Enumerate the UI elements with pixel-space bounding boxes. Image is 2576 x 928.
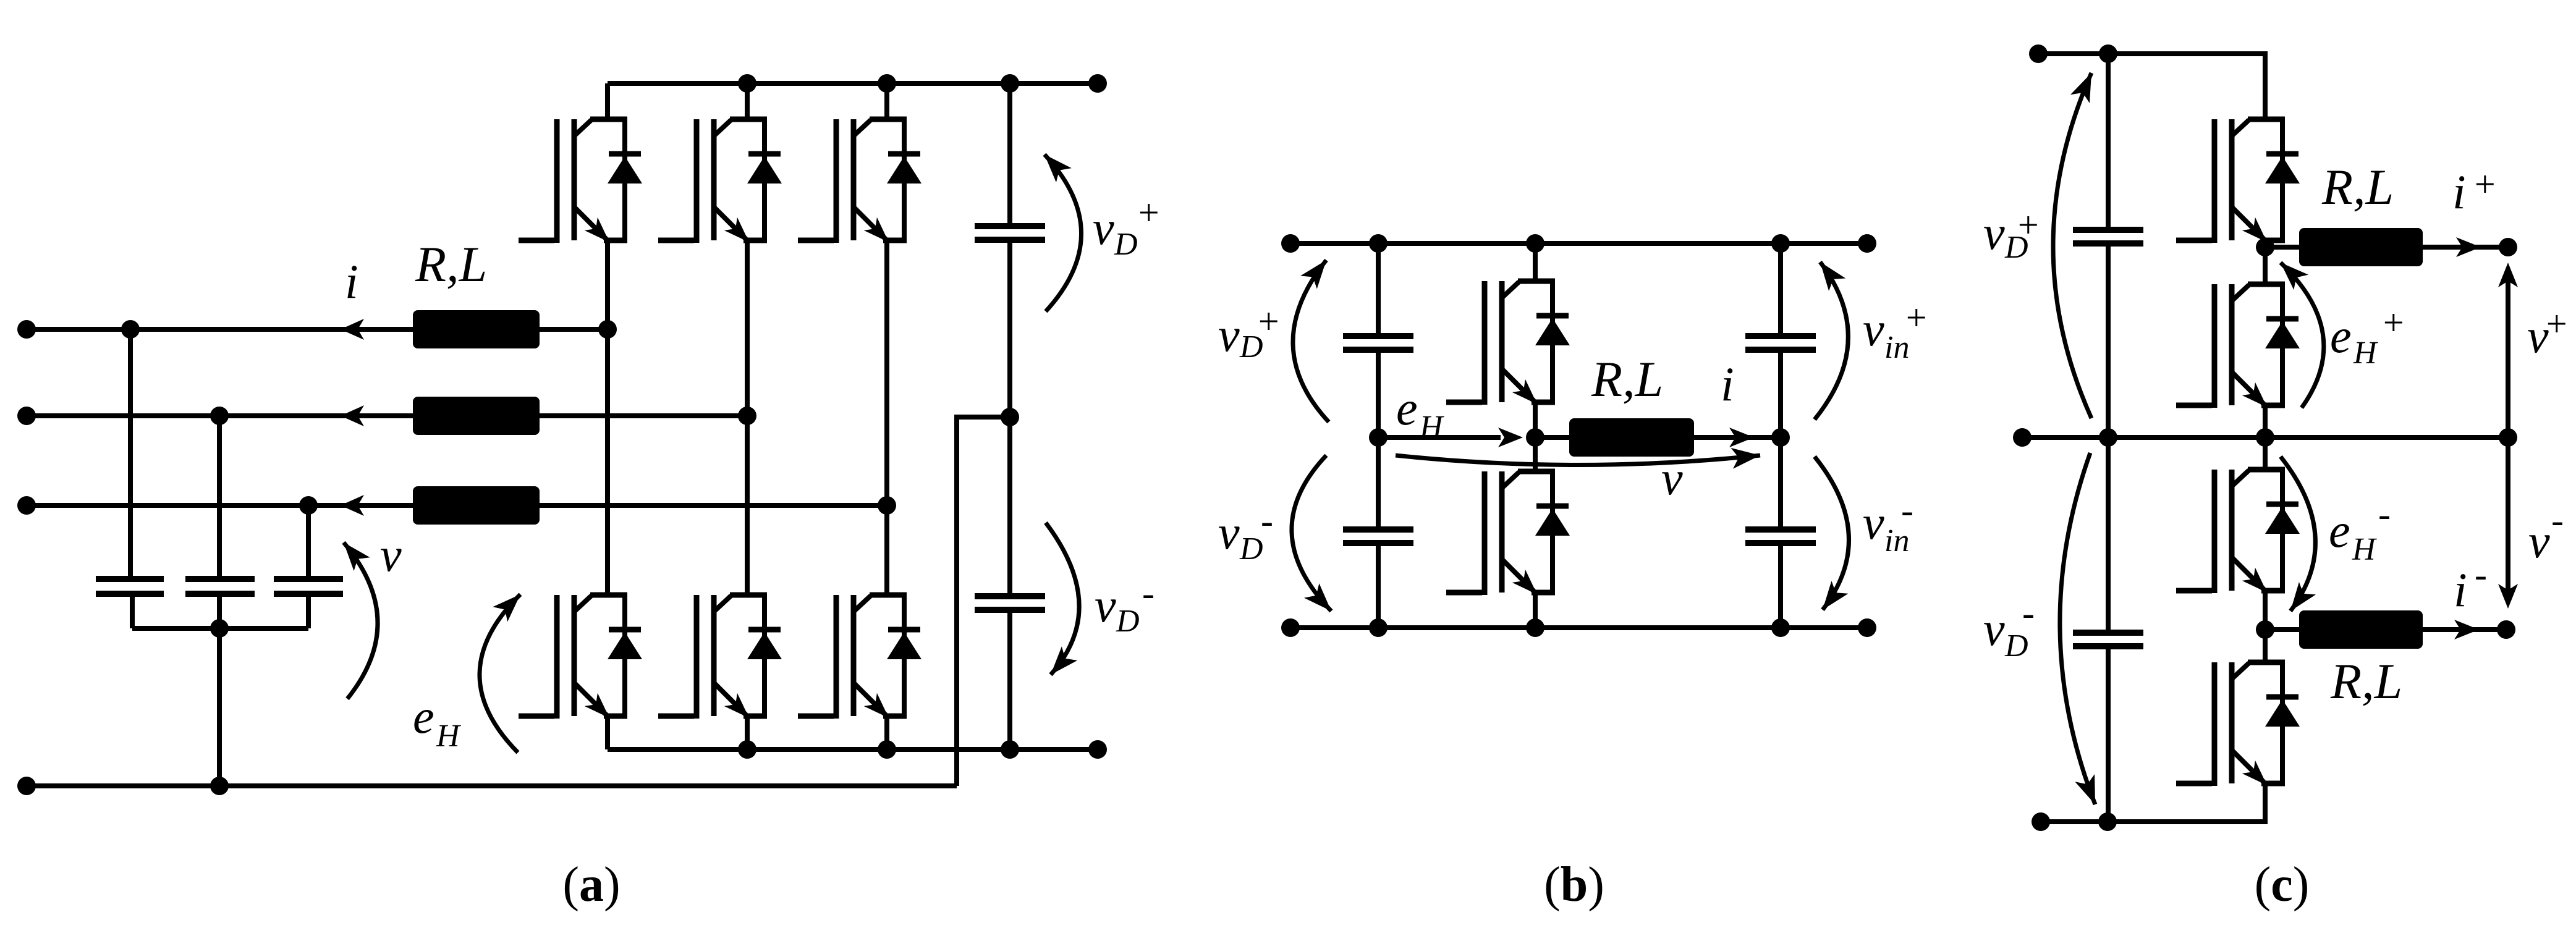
IGBT Q6 lower (a) bbox=[798, 595, 922, 719]
inductor R,L- (c) bbox=[2299, 610, 2423, 649]
svg-text:v: v bbox=[1983, 206, 2005, 259]
label v- (c) bbox=[2528, 500, 2564, 568]
junction dot top rail (b) bbox=[1281, 234, 1300, 253]
capacitor filter Cc bbox=[274, 579, 343, 594]
svg-text:i: i bbox=[345, 255, 358, 308]
capacitor C_D+ (b) bbox=[1343, 336, 1413, 350]
arrow v_D- (a) bbox=[1046, 523, 1079, 675]
junction dot top rail (b) bbox=[1526, 234, 1544, 253]
terminal dot phase-b bbox=[17, 407, 36, 425]
svg-text:-: - bbox=[1261, 500, 1273, 541]
label i- (c) bbox=[2454, 554, 2487, 617]
IGBT Q2 upper (a) bbox=[658, 119, 782, 243]
arrow e_H (b) bbox=[1378, 428, 1523, 447]
svg-text:e: e bbox=[2330, 309, 2352, 363]
wire left cap leg upper (b) bbox=[1376, 243, 1381, 336]
svg-text:(a): (a) bbox=[562, 858, 620, 912]
IGBT Q2+ (c) bbox=[2176, 284, 2300, 408]
junction dot bottom rail (b) bbox=[1526, 618, 1544, 637]
terminal dot bottom-left (c) bbox=[2032, 812, 2050, 831]
wire leg2 emitter bbox=[745, 716, 750, 749]
IGBT Q2 (b) bbox=[1446, 471, 1570, 595]
junction dot right cap mid (b) bbox=[1771, 428, 1790, 447]
arrow v_D+ (c) bbox=[2053, 73, 2091, 418]
wire leg1 emitter bbox=[605, 716, 610, 749]
junction dot IGBT midpoint (b) bbox=[1526, 428, 1544, 447]
arrow v_D- (c) bbox=[2060, 453, 2095, 804]
wire lower cap bottom lead (c) bbox=[2106, 646, 2111, 822]
junction dot bottom cap (c) bbox=[2098, 812, 2117, 831]
inductor R,L phase-c bbox=[413, 486, 540, 525]
label v_D- (c) bbox=[1983, 593, 2035, 664]
IGBT Q1- (c) bbox=[2176, 470, 2300, 593]
wire cap Ca to star bus bbox=[130, 594, 135, 628]
capacitor C_D+ (a) bbox=[975, 226, 1045, 240]
junction dot bottom rail (b) bbox=[1281, 618, 1300, 637]
svg-text:-: - bbox=[2022, 593, 2035, 633]
wire DC+ rail (a) bbox=[608, 81, 1098, 86]
wire phase-c line (right) bbox=[540, 503, 887, 508]
wire leg3 emitter bbox=[884, 716, 889, 749]
wire lower cap lead (c) bbox=[2106, 437, 2111, 633]
junction dot star point bbox=[210, 619, 229, 638]
wire Q2+ emitter (c) bbox=[2263, 405, 2268, 437]
svg-text:v: v bbox=[1093, 201, 1114, 255]
junction dot rail/leg3 bbox=[878, 74, 896, 93]
arrow v_in+ (b) bbox=[1815, 262, 1848, 420]
svg-text:v: v bbox=[1863, 496, 1884, 549]
arrow v+ (c) bbox=[2498, 263, 2518, 437]
junction dot phase-c / leg3 bbox=[878, 496, 896, 515]
terminal dot i- (c) bbox=[2497, 620, 2515, 639]
svg-text:R,L: R,L bbox=[1591, 351, 1663, 407]
wire dropper phase-c to cap bbox=[306, 505, 311, 579]
wire neutral line bbox=[27, 783, 957, 788]
wire left cap leg lower (b) bbox=[1376, 543, 1381, 628]
wire right cap leg upper (b) bbox=[1778, 243, 1783, 336]
terminal dot top-left (c) bbox=[2029, 44, 2048, 63]
arrow v (b) bbox=[1396, 448, 1760, 469]
wire mid rail (c) bbox=[2022, 435, 2508, 440]
wire IGBT mid upper (b) bbox=[1533, 402, 1538, 437]
svg-text:D: D bbox=[2004, 628, 2028, 664]
wire leg2 midsection bbox=[745, 240, 750, 595]
arrow v_D+ (a) bbox=[1044, 154, 1082, 311]
capacitor filter Ca bbox=[96, 579, 164, 594]
inductor R,L phase-a bbox=[413, 310, 540, 348]
label v_D- (b) bbox=[1218, 500, 1273, 567]
wire DC cap lower lead bbox=[1007, 610, 1012, 749]
svg-text:+: + bbox=[2381, 302, 2406, 343]
current arrow i- (c) bbox=[2454, 620, 2479, 639]
wire leg2 collector bbox=[745, 83, 750, 119]
arrow v- (c) bbox=[2498, 437, 2518, 609]
svg-text:R,L: R,L bbox=[415, 236, 487, 292]
caption (b) bbox=[1544, 858, 1604, 912]
capacitor C_D- (c) bbox=[2073, 633, 2143, 646]
wire Q1-/Q2- junction (c) bbox=[2263, 591, 2268, 662]
junction dot rail/leg2 bbox=[738, 74, 756, 93]
junction dot mid right (c) bbox=[2499, 428, 2517, 447]
junction dot bottom rail (b) bbox=[1771, 618, 1790, 637]
svg-text:-: - bbox=[2551, 500, 2564, 541]
svg-text:H: H bbox=[1419, 410, 1444, 445]
svg-text:+: + bbox=[1136, 192, 1161, 233]
terminal dot phase-a bbox=[17, 320, 36, 339]
wire phase-c line (left) bbox=[27, 503, 413, 508]
wire star point to neutral bbox=[217, 628, 222, 786]
svg-text:H: H bbox=[436, 719, 461, 754]
capacitor C_in- (b) bbox=[1745, 529, 1816, 543]
wire left cap leg mid (b) bbox=[1376, 350, 1381, 529]
arrow e_H measurement (a) bbox=[480, 594, 520, 753]
wire dropper phase-b to cap bbox=[217, 416, 222, 579]
wire DC+ rail (b) bbox=[1290, 241, 1867, 246]
capacitor filter Cb bbox=[185, 579, 255, 594]
terminal dot phase-c bbox=[17, 496, 36, 515]
svg-text:e: e bbox=[1396, 381, 1418, 435]
wire phase-b line (right) bbox=[540, 413, 747, 418]
wire leg3 collector bbox=[884, 83, 889, 119]
svg-text:+: + bbox=[1256, 301, 1281, 342]
junction dot mid IGBT (c) bbox=[2256, 428, 2274, 447]
wire R,L+ to terminal (c) bbox=[2423, 245, 2508, 250]
svg-text:(b): (b) bbox=[1544, 858, 1604, 912]
wire IGBT leg collector (b) bbox=[1533, 243, 1538, 281]
svg-text:R,L: R,L bbox=[2330, 653, 2402, 709]
svg-text:v: v bbox=[2528, 514, 2550, 568]
label v (b) bbox=[1661, 451, 1683, 505]
junction dot bottom rail (b) bbox=[1858, 618, 1876, 637]
terminal dot DC- (a) bbox=[1088, 740, 1107, 759]
svg-text:v: v bbox=[1095, 578, 1116, 632]
inductor R,L phase-b bbox=[413, 397, 540, 435]
wire DC- rail (b) bbox=[1290, 625, 1867, 630]
terminal dot i+ (c) bbox=[2499, 238, 2517, 256]
svg-text:v: v bbox=[1983, 602, 2005, 656]
wire cap Cb to star bus bbox=[217, 594, 222, 628]
svg-text:H: H bbox=[2352, 532, 2377, 567]
junction dot output+ (c) bbox=[2256, 238, 2274, 256]
wire leg1 midsection bbox=[605, 240, 610, 595]
svg-text:v: v bbox=[1218, 308, 1240, 361]
junction dot bus/leg3 bbox=[878, 740, 896, 759]
arrow e_H+ (c) bbox=[2281, 263, 2324, 408]
label i (b) bbox=[1721, 357, 1734, 411]
svg-text:i: i bbox=[2452, 165, 2466, 219]
wire upper cap lead (c) bbox=[2106, 54, 2111, 230]
capacitor C_in+ (b) bbox=[1745, 336, 1816, 350]
junction dot top rail (b) bbox=[1858, 234, 1876, 253]
junction dot top rail cap (c) bbox=[2099, 44, 2117, 63]
junction dot phase-c / dropper bbox=[299, 496, 318, 515]
junction dot left cap mid (b) bbox=[1369, 428, 1388, 447]
label v+ (c) bbox=[2527, 303, 2569, 363]
wire star bus bbox=[132, 626, 308, 631]
junction dot phase-a / dropper bbox=[121, 320, 140, 339]
capacitor C_D- (a) bbox=[975, 596, 1045, 610]
label i+ (c) bbox=[2452, 164, 2498, 219]
caption (a) bbox=[562, 858, 620, 912]
svg-text:-: - bbox=[2475, 554, 2487, 595]
IGBT Q2- (c) bbox=[2176, 662, 2300, 786]
IGBT Q4 lower (a) bbox=[519, 595, 642, 719]
wire R,L to right cap (b) bbox=[1694, 435, 1781, 440]
label v_in- (b) bbox=[1863, 490, 1913, 559]
inductor R,L (b) bbox=[1569, 418, 1694, 457]
label v_D+ (c) bbox=[1983, 205, 2041, 265]
terminal dot mid-left (c) bbox=[2013, 428, 2032, 447]
wire DC cap upper lead bbox=[1007, 83, 1012, 226]
svg-text:+: + bbox=[2544, 303, 2569, 344]
junction dot phase-b / dropper bbox=[210, 407, 229, 425]
label v_D- (a) bbox=[1095, 573, 1155, 639]
junction dot bus/DC cap bbox=[1001, 740, 1019, 759]
IGBT Q5 lower (a) bbox=[658, 595, 782, 719]
svg-text:v: v bbox=[1661, 451, 1683, 505]
wire right cap leg mid (b) bbox=[1778, 350, 1783, 529]
wire IGBT mid lower (b) bbox=[1533, 437, 1538, 471]
wire leg1 collector bbox=[605, 83, 610, 119]
wire upper cap lower lead (c) bbox=[2106, 243, 2111, 437]
svg-text:D: D bbox=[1239, 531, 1263, 567]
svg-text:D: D bbox=[1116, 604, 1140, 639]
svg-text:-: - bbox=[1142, 573, 1155, 614]
label e_H (b) bbox=[1396, 381, 1444, 445]
svg-text:+: + bbox=[2472, 164, 2498, 205]
IGBT Q1+ (c) bbox=[2176, 119, 2300, 243]
label v_in+ (b) bbox=[1863, 297, 1929, 365]
junction dot bottom rail (b) bbox=[1369, 618, 1388, 637]
svg-text:v: v bbox=[1863, 302, 1884, 356]
wire IGBT leg emitter (b) bbox=[1533, 593, 1538, 628]
label v_D+ (b) bbox=[1218, 301, 1281, 365]
wire leg3 midsection bbox=[884, 240, 889, 595]
svg-text:D: D bbox=[1114, 227, 1138, 262]
junction dot rail/DC cap bbox=[1001, 74, 1019, 93]
junction dot neutral tap bbox=[210, 777, 229, 795]
svg-text:-: - bbox=[1901, 490, 1913, 531]
svg-text:R,L: R,L bbox=[2321, 159, 2394, 215]
IGBT Q1 upper (a) bbox=[519, 119, 642, 243]
wire R,L- to terminal (c) bbox=[2423, 627, 2506, 632]
junction dot top rail (b) bbox=[1771, 234, 1790, 253]
label R,L (b) bbox=[1591, 351, 1663, 407]
current arrow i+ (c) bbox=[2456, 237, 2481, 257]
wire right cap leg lower (b) bbox=[1778, 543, 1783, 628]
junction dot phase-b / leg2 bbox=[738, 407, 756, 425]
terminal dot neutral bbox=[17, 777, 36, 795]
svg-text:i: i bbox=[1721, 357, 1734, 411]
junction dot mid cap (c) bbox=[2099, 428, 2117, 447]
svg-text:i: i bbox=[2454, 563, 2467, 617]
junction dot phase-a / leg1 bbox=[598, 320, 617, 339]
capacitor C_D- (b) bbox=[1343, 529, 1413, 543]
arrow v_in- (b) bbox=[1815, 457, 1849, 610]
wire top rail (c) bbox=[2038, 54, 2265, 119]
wire DC- rail (a) bbox=[608, 747, 1098, 752]
wire junction to R,L (b) bbox=[1535, 435, 1569, 440]
wire cap Cc to star bus bbox=[306, 594, 311, 628]
wire junction to R,L+ (c) bbox=[2265, 245, 2299, 250]
wire Q1+/Q2+ junction upper (c) bbox=[2263, 240, 2268, 284]
svg-text:H: H bbox=[2353, 335, 2378, 371]
IGBT Q3 upper (a) bbox=[798, 119, 922, 243]
wire phase-b line (left) bbox=[27, 413, 413, 418]
arrow v_D- (b) bbox=[1292, 455, 1331, 611]
inductor R,L+ (c) bbox=[2299, 228, 2423, 266]
svg-text:e: e bbox=[413, 690, 434, 743]
current arrow on phase-b bbox=[341, 405, 364, 426]
caption (c) bbox=[2255, 858, 2310, 912]
wire phase-a line (right) bbox=[540, 327, 608, 332]
terminal dot DC+ (a) bbox=[1088, 74, 1107, 93]
current arrow on phase-a bbox=[341, 319, 364, 340]
label v (a) bbox=[380, 528, 402, 581]
wire Q1- collector (c) bbox=[2263, 437, 2268, 470]
junction dot output- (c) bbox=[2256, 620, 2274, 639]
wire DC cap inter lead bbox=[1007, 240, 1012, 596]
label v_D+ (a) bbox=[1093, 192, 1161, 262]
label R,L+ (c) bbox=[2321, 159, 2394, 215]
arrow v_D+ (b) bbox=[1293, 260, 1329, 422]
junction dot bus/leg2 bbox=[738, 740, 756, 759]
wire Q2- emitter (c) bbox=[2108, 783, 2265, 822]
wire phase-a line (left) bbox=[27, 327, 413, 332]
svg-text:(c): (c) bbox=[2255, 858, 2310, 912]
label i (phase current) bbox=[345, 255, 358, 308]
label R,L- (c) bbox=[2330, 653, 2402, 709]
svg-text:e: e bbox=[2329, 504, 2350, 557]
wire neutral riser bbox=[957, 417, 1010, 786]
svg-text:+: + bbox=[2015, 205, 2041, 245]
label e_H+ (c) bbox=[2330, 302, 2406, 371]
junction dot top rail (b) bbox=[1369, 234, 1388, 253]
capacitor C_D+ (c) bbox=[2073, 230, 2143, 243]
label e_H- (c) bbox=[2329, 494, 2391, 567]
label R,L (a) bbox=[415, 236, 487, 292]
IGBT Q1 (b) bbox=[1446, 281, 1570, 405]
current arrow i (b) bbox=[1729, 428, 1754, 447]
svg-text:v: v bbox=[1218, 505, 1240, 559]
label e_H (a) bbox=[413, 690, 461, 754]
junction dot DC midpoint (a) bbox=[1001, 408, 1019, 426]
arrow e_H- (c) bbox=[2281, 457, 2316, 611]
svg-text:+: + bbox=[1904, 297, 1929, 338]
wire junction to R,L- (c) bbox=[2265, 627, 2299, 632]
svg-text:-: - bbox=[2378, 494, 2391, 534]
current arrow on phase-c bbox=[341, 495, 364, 516]
arrow v measurement (a) bbox=[344, 542, 378, 699]
wire bottom rail (c) bbox=[2041, 819, 2265, 824]
svg-text:v: v bbox=[380, 528, 402, 581]
wire dropper phase-a to cap bbox=[128, 329, 133, 579]
